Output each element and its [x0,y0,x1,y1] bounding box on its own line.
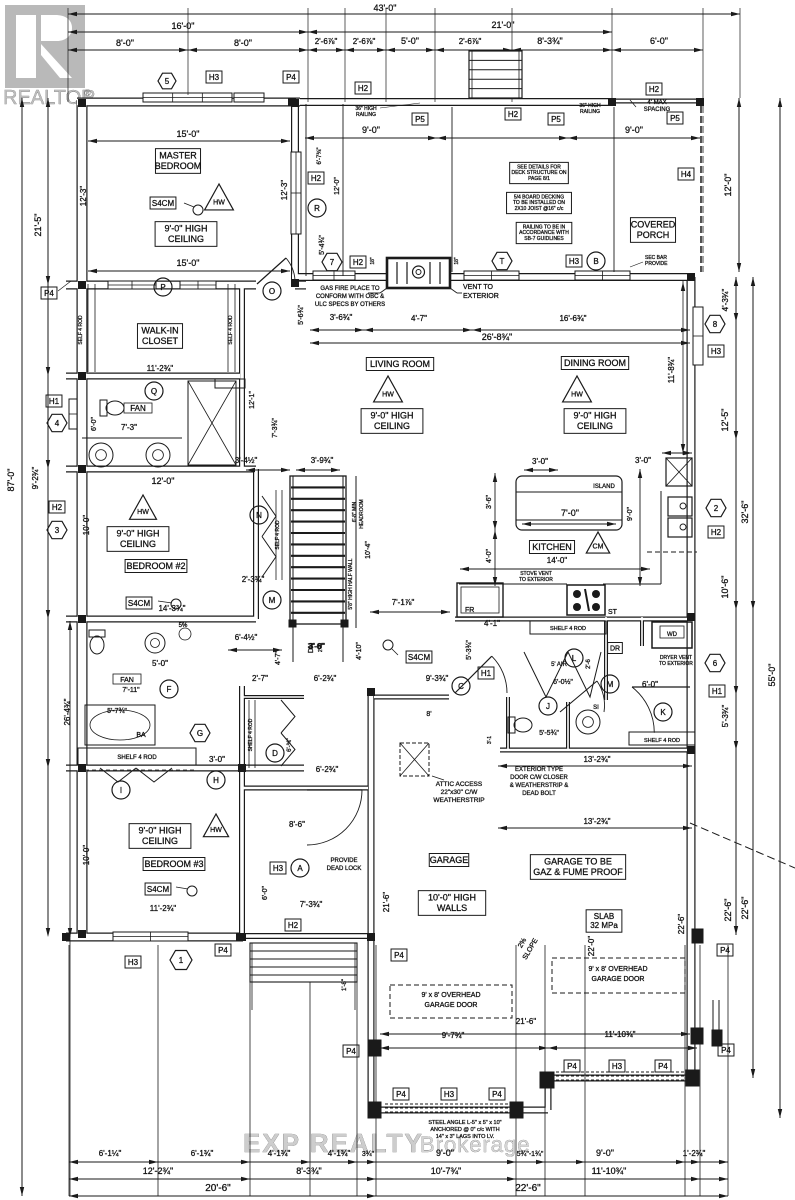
svg-text:5'-5¾": 5'-5¾" [539,730,559,737]
svg-text:O: O [269,287,275,296]
svg-text:12'-0": 12'-0" [334,177,341,195]
svg-text:12'-5": 12'-5" [720,409,730,432]
svg-text:P4: P4 [492,1090,502,1099]
svg-text:GARAGE: GARAGE [430,855,469,865]
svg-text:CM: CM [593,544,604,551]
svg-text:11'-2¾": 11'-2¾" [147,364,174,373]
svg-text:GAZ & FUME PROOF: GAZ & FUME PROOF [533,867,623,877]
svg-text:8'-6": 8'-6" [289,820,305,829]
svg-text:HW: HW [137,509,149,516]
svg-text:P4: P4 [721,1046,731,1055]
svg-text:7'-3¾": 7'-3¾" [300,900,323,909]
svg-text:6'-0": 6'-0" [91,417,98,431]
svg-text:10'-7¾": 10'-7¾" [431,1166,461,1176]
svg-text:H2: H2 [353,258,364,267]
svg-text:11'-2¾": 11'-2¾" [150,904,177,913]
svg-text:7'-3¾": 7'-3¾" [272,418,279,438]
svg-text:22'-6": 22'-6" [515,1183,541,1194]
svg-text:3'-0": 3'-0" [209,755,225,764]
svg-text:CEILING: CEILING [120,539,156,549]
svg-text:S4CM: S4CM [152,199,175,208]
svg-text:9'-0" HIGH: 9'-0" HIGH [574,411,617,421]
svg-text:BEDROOM #3: BEDROOM #3 [144,859,203,869]
svg-text:8'-0": 8'-0" [116,38,134,48]
svg-text:EXTERIOR: EXTERIOR [463,293,499,300]
svg-text:2'-6⅞": 2'-6⅞" [459,37,482,46]
svg-text:3'-0": 3'-0" [532,457,548,466]
svg-text:26'-4¾": 26'-4¾" [63,698,72,725]
svg-text:H1: H1 [712,687,723,696]
svg-text:32 MPa: 32 MPa [590,921,618,930]
svg-text:18": 18" [454,257,460,265]
svg-text:16'-0": 16'-0" [172,21,195,31]
svg-text:20'-6": 20'-6" [205,1183,231,1194]
svg-text:5' AIR: 5' AIR [551,662,567,668]
svg-text:3: 3 [55,526,60,535]
svg-text:CEILING: CEILING [168,234,204,244]
svg-text:T: T [500,257,505,266]
svg-text:FAN: FAN [120,677,134,684]
svg-text:12'-3": 12'-3" [280,180,289,201]
svg-text:SELF 4 ROD: SELF 4 ROD [78,315,84,345]
svg-text:ULC SPECS BY OTHERS: ULC SPECS BY OTHERS [315,302,385,308]
svg-text:11'-10¾": 11'-10¾" [592,1166,627,1176]
svg-text:22"x30" C/W: 22"x30" C/W [441,789,479,796]
svg-text:4' MAX: 4' MAX [647,100,666,106]
svg-text:SLAB: SLAB [594,912,614,921]
svg-text:7: 7 [330,258,335,267]
svg-text:9'-0": 9'-0" [436,1148,454,1158]
svg-text:6'-1¾": 6'-1¾" [191,1149,214,1158]
svg-text:8'-0": 8'-0" [234,38,252,48]
svg-text:H3: H3 [711,347,722,356]
svg-text:9'-0" HIGH: 9'-0" HIGH [139,826,182,836]
svg-text:4'-7": 4'-7" [411,314,427,323]
svg-text:6'-1¼": 6'-1¼" [99,1149,122,1158]
svg-text:P4: P4 [720,946,730,955]
svg-text:H4: H4 [681,170,692,179]
svg-text:KITCHEN: KITCHEN [532,542,572,552]
svg-text:4: 4 [55,419,60,428]
svg-text:9'-0" HIGH: 9'-0" HIGH [165,224,208,234]
svg-text:10'-6": 10'-6" [720,576,730,599]
svg-text:21'-6": 21'-6" [516,1017,537,1026]
svg-text:VENT TO: VENT TO [463,284,494,291]
svg-text:F: F [167,685,172,694]
svg-text:14'-3¾": 14'-3¾" [158,604,185,613]
svg-text:5'-7¾": 5'-7¾" [107,708,127,715]
svg-text:1'-2¾": 1'-2¾" [683,1149,706,1158]
svg-text:SHELF 4 ROD: SHELF 4 ROD [117,755,157,761]
svg-text:6'-2¾": 6'-2¾" [314,674,337,683]
svg-text:H2: H2 [311,174,322,183]
svg-text:6'-4½": 6'-4½" [235,633,258,642]
svg-text:COVERED: COVERED [631,220,676,230]
svg-text:13'-2¾": 13'-2¾" [583,755,610,764]
svg-text:CONFORM WITH OBC &: CONFORM WITH OBC & [316,294,384,300]
svg-text:H3: H3 [444,1090,455,1099]
svg-text:3'-0": 3'-0" [635,456,651,465]
svg-text:H2: H2 [711,528,722,537]
svg-text:WALK-IN: WALK-IN [141,326,178,336]
svg-text:S4CM: S4CM [147,885,170,894]
svg-text:2'-6⅞": 2'-6⅞" [353,37,376,46]
svg-text:HW: HW [382,391,394,398]
svg-text:BEDROOM #2: BEDROOM #2 [126,561,185,571]
svg-text:8: 8 [713,320,718,329]
svg-text:H3: H3 [209,73,220,82]
svg-text:S4CM: S4CM [128,599,151,608]
svg-text:I: I [120,786,122,795]
svg-text:P4: P4 [567,1062,577,1071]
svg-text:H2: H2 [52,503,63,512]
svg-text:R: R [314,204,320,213]
svg-text:PROVIDE: PROVIDE [645,261,668,267]
svg-text:7'-0": 7'-0" [561,508,579,518]
svg-text:3'-6¾": 3'-6¾" [330,313,353,322]
svg-text:LIVING ROOM: LIVING ROOM [370,359,430,369]
svg-text:9'-0": 9'-0" [362,125,380,135]
svg-text:H2: H2 [288,921,299,930]
svg-text:PROVIDE: PROVIDE [330,858,357,864]
svg-text:3'-4½": 3'-4½" [235,456,258,465]
svg-text:SI: SI [593,705,599,711]
svg-text:5'-0": 5'-0" [152,659,168,668]
svg-text:P4: P4 [394,951,404,960]
svg-text:ST: ST [608,609,618,616]
svg-text:5'-3¾": 5'-3¾" [466,640,473,660]
svg-text:21'-5": 21'-5" [33,214,43,237]
svg-text:K: K [660,708,666,717]
svg-text:9'-0" HIGH: 9'-0" HIGH [371,411,414,421]
svg-text:10'-0" HIGH: 10'-0" HIGH [428,893,476,903]
svg-text:3'-6": 3'-6" [486,495,493,509]
svg-text:MASTER: MASTER [159,151,197,161]
svg-text:6'-¾": 6'-¾" [287,738,293,752]
svg-text:HW: HW [213,199,225,206]
svg-text:22'-6": 22'-6" [723,899,733,922]
svg-text:H2: H2 [508,110,519,119]
svg-text:9'-0": 9'-0" [627,507,634,521]
svg-text:5'8" HIGH HALF WALL: 5'8" HIGH HALF WALL [348,558,354,609]
svg-text:13'-2¾": 13'-2¾" [583,817,610,826]
svg-text:87'-0": 87'-0" [6,469,16,492]
svg-text:P4: P4 [44,289,54,298]
svg-text:GARAGE DOOR: GARAGE DOOR [592,976,645,983]
svg-text:ISLAND: ISLAND [593,484,615,490]
svg-text:18": 18" [370,257,376,265]
svg-text:2'-7": 2'-7" [252,674,268,683]
svg-text:15'-0": 15'-0" [177,258,200,268]
svg-text:H2: H2 [358,84,369,93]
svg-text:5'-3¾": 5'-3¾" [721,705,730,728]
svg-text:H3: H3 [273,864,284,873]
svg-text:ANCHORED @ 0" c/c WITH: ANCHORED @ 0" c/c WITH [430,1127,499,1133]
svg-text:BEDROOM: BEDROOM [155,161,202,171]
svg-text:8'-3¾": 8'-3¾" [537,36,562,46]
svg-text:5¾"-1¾": 5¾"-1¾" [517,1151,544,1158]
svg-text:22'-0": 22'-0" [587,936,596,957]
svg-text:1: 1 [179,956,184,965]
svg-text:H: H [213,776,219,785]
svg-text:22'-6": 22'-6" [740,897,750,920]
svg-text:P4: P4 [286,73,296,82]
svg-text:9'-3¾": 9'-3¾" [426,674,449,683]
svg-text:14'-0": 14'-0" [547,556,568,565]
svg-text:M: M [269,596,276,605]
svg-text:TO EXTERIOR: TO EXTERIOR [519,577,553,583]
svg-text:SELF 4 ROD: SELF 4 ROD [275,520,281,550]
svg-text:SHELF 4 ROD: SHELF 4 ROD [248,718,254,751]
svg-text:9' x 8' OVERHEAD: 9' x 8' OVERHEAD [421,992,480,999]
svg-text:P4: P4 [218,946,228,955]
svg-text:WD: WD [667,632,678,638]
svg-text:26'-8¾": 26'-8¾" [482,332,512,342]
svg-text:6'-0": 6'-0" [262,886,269,900]
svg-text:4'-7": 4'-7" [275,651,282,665]
svg-text:STEEL ANGLE L-5" x 5" x 10": STEEL ANGLE L-5" x 5" x 10" [428,1120,501,1126]
svg-text:HW: HW [210,827,222,834]
svg-text:S4CM: S4CM [408,653,431,662]
svg-text:16'-6¾": 16'-6¾" [559,314,586,323]
svg-text:6'-2¾": 6'-2¾" [316,765,339,774]
svg-text:CEILING: CEILING [374,421,410,431]
svg-text:11'-8¾": 11'-8¾" [667,357,676,384]
svg-text:GAS FIRE PLACE TO: GAS FIRE PLACE TO [320,286,379,292]
svg-text:CLOSET: CLOSET [142,336,179,346]
svg-text:4'-1": 4'-1" [484,619,500,628]
svg-text:BA: BA [136,732,146,739]
svg-text:5'-0": 5'-0" [401,36,419,46]
svg-text:H3: H3 [128,958,139,967]
svg-text:12'-0": 12'-0" [152,476,175,486]
svg-text:H3: H3 [612,1062,623,1071]
svg-text:TO EXTERIOR: TO EXTERIOR [659,661,693,667]
svg-text:P4: P4 [396,1090,406,1099]
svg-text:3'-9¾": 3'-9¾" [311,456,334,465]
svg-text:M: M [607,680,614,689]
svg-text:21'-6": 21'-6" [382,892,391,913]
svg-text:RAILING: RAILING [356,112,376,118]
svg-text:8'-3¾": 8'-3¾" [296,1166,321,1176]
svg-text:®: ® [84,88,91,98]
svg-text:9' x 8' OVERHEAD: 9' x 8' OVERHEAD [588,966,647,973]
svg-text:DR: DR [610,646,620,653]
svg-text:4'-0": 4'-0" [486,549,493,563]
svg-text:3¾": 3¾" [362,1151,375,1158]
svg-text:6'-0": 6'-0" [642,680,658,689]
svg-text:DOOR C/W CLOSER: DOOR C/W CLOSER [510,775,568,781]
svg-text:DINING ROOM: DINING ROOM [564,358,626,368]
svg-text:DEAD LOCK: DEAD LOCK [327,866,362,872]
svg-text:SELF 4 ROD: SELF 4 ROD [228,315,234,345]
svg-text:15'-0": 15'-0" [177,129,200,139]
svg-text:P4: P4 [346,1047,356,1056]
svg-text:GARAGE DOOR: GARAGE DOOR [425,1002,478,1009]
svg-text:H1: H1 [49,397,60,406]
svg-text:12'-1": 12'-1" [249,391,256,409]
svg-text:5: 5 [165,77,170,86]
svg-text:CEILING: CEILING [142,836,178,846]
svg-text:GARAGE TO BE: GARAGE TO BE [544,857,612,867]
svg-text:P5: P5 [551,115,561,124]
svg-text:2X10 JOIST @16" c/c: 2X10 JOIST @16" c/c [515,206,564,212]
svg-text:2: 2 [714,504,719,513]
svg-text:WEATHERSTRIP: WEATHERSTRIP [433,797,484,804]
svg-text:11'-10¾": 11'-10¾" [605,1030,636,1039]
svg-text:PORCH: PORCH [637,230,670,240]
svg-text:10'-4": 10'-4" [365,541,372,559]
svg-text:N: N [256,511,262,520]
svg-text:6'-8" MIN: 6'-8" MIN [352,501,358,522]
svg-text:Q: Q [151,387,157,396]
svg-text:9'-7¾": 9'-7¾" [442,1031,465,1040]
svg-text:P4: P4 [658,1062,668,1071]
svg-text:CEILING: CEILING [577,421,613,431]
svg-text:4'-3¾": 4'-3¾" [721,289,730,312]
svg-text:21'-0": 21'-0" [492,20,515,30]
svg-text:P: P [160,283,165,292]
svg-text:6'-0": 6'-0" [650,36,668,46]
svg-text:P5: P5 [670,114,680,123]
svg-text:J: J [546,702,550,711]
svg-text:10'-0": 10'-0" [82,515,91,536]
svg-text:SB-7 GUIDLINES: SB-7 GUIDLINES [524,236,564,242]
svg-text:3'-1: 3'-1 [487,736,493,744]
svg-text:55'-0": 55'-0" [767,664,777,687]
svg-text:ATTIC ACCESS: ATTIC ACCESS [436,781,483,788]
svg-text:FAN: FAN [130,404,146,413]
svg-text:14" x 3" LAGS INTO LV.: 14" x 3" LAGS INTO LV. [436,1134,495,1140]
svg-text:B: B [593,257,598,266]
svg-text:D: D [272,749,278,758]
svg-text:7'-3": 7'-3" [121,423,137,432]
svg-text:32'-6": 32'-6" [740,501,750,524]
svg-text:12'-3": 12'-3" [79,186,88,207]
svg-text:7'-11": 7'-11" [122,687,140,694]
svg-text:1'-8": 1'-8" [342,979,348,991]
svg-text:G: G [197,729,203,738]
svg-text:WALLS: WALLS [437,903,467,913]
svg-text:& WEATHERSTRIP &: & WEATHERSTRIP & [510,783,568,789]
svg-text:PAGE 8/1: PAGE 8/1 [528,176,550,182]
svg-text:4'-1¾": 4'-1¾" [328,1149,351,1158]
svg-text:4'-10": 4'-10" [356,642,363,660]
svg-text:9'-0": 9'-0" [625,125,643,135]
svg-text:43'-0": 43'-0" [374,3,397,13]
svg-text:8': 8' [426,711,431,718]
svg-text:4'-1¾": 4'-1¾" [268,1149,291,1158]
svg-text:DEAD BOLT: DEAD BOLT [522,791,556,797]
svg-text:22'-6": 22'-6" [677,914,686,935]
svg-text:9'-2¾": 9'-2¾" [31,467,40,490]
svg-text:5'-6¾": 5'-6¾" [298,305,305,325]
svg-text:SHELF 4 ROD: SHELF 4 ROD [550,626,586,632]
svg-text:2'-6⅞": 2'-6⅞" [315,37,338,46]
svg-text:HW: HW [571,391,583,398]
svg-text:H1: H1 [481,669,492,678]
svg-text:HEADROOM: HEADROOM [359,499,365,528]
svg-text:EXTERIOR TYPE: EXTERIOR TYPE [515,767,563,773]
svg-text:RAILING: RAILING [580,109,600,115]
svg-text:6'-0½": 6'-0½" [553,678,573,686]
svg-text:H2: H2 [649,85,660,94]
svg-text:9'-0": 9'-0" [596,1148,614,1158]
svg-text:3'-6": 3'-6" [308,642,324,651]
svg-text:7'-1⅞": 7'-1⅞" [392,598,415,607]
svg-text:6'-7¾": 6'-7¾" [317,148,323,165]
svg-text:6: 6 [713,659,718,668]
svg-text:12'-0": 12'-0" [723,174,733,197]
svg-text:5'-4¾": 5'-4¾" [319,235,326,255]
svg-text:FR: FR [465,607,474,614]
svg-text:2'-6: 2'-6 [586,658,592,668]
svg-text:H3: H3 [569,257,580,266]
svg-text:10'-0": 10'-0" [82,845,91,866]
svg-text:2'-3¾": 2'-3¾" [242,575,265,584]
svg-text:SHELF 4 ROD: SHELF 4 ROD [644,738,680,744]
svg-text:P5: P5 [415,115,425,124]
svg-text:9'-0" HIGH: 9'-0" HIGH [117,529,160,539]
svg-text:A: A [297,864,303,873]
